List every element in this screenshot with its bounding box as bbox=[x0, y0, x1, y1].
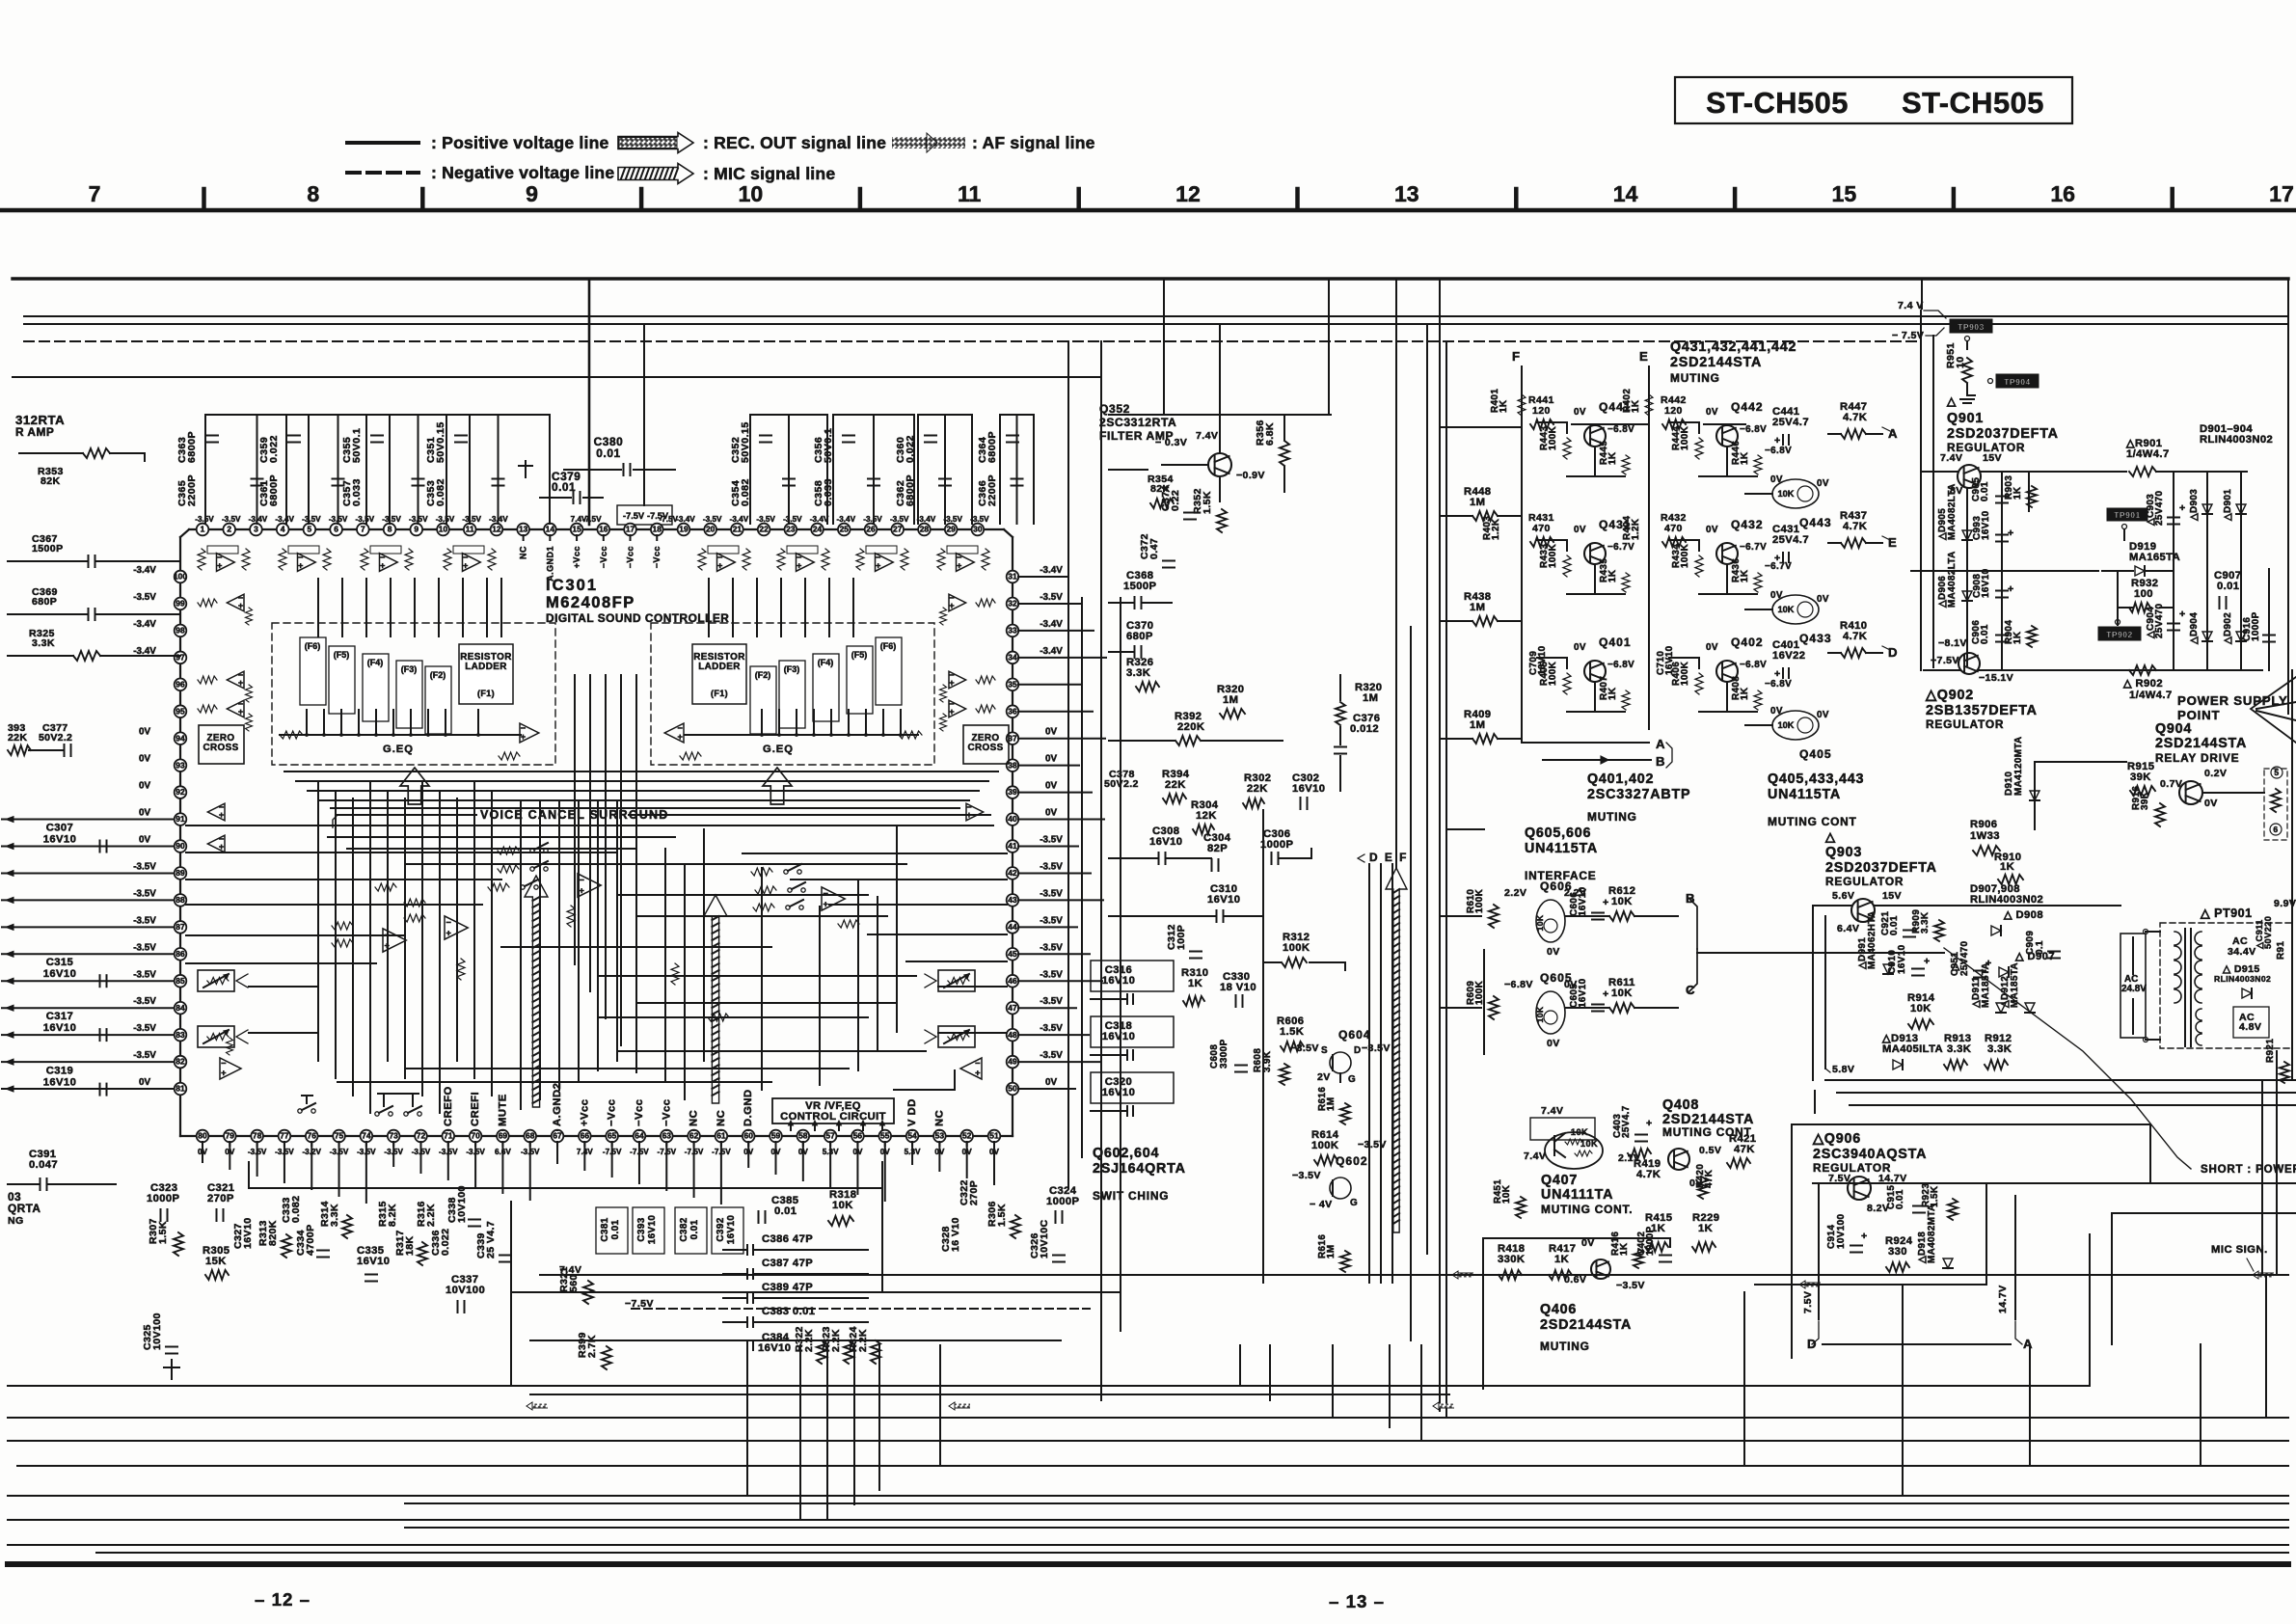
svg-text:0.47: 0.47 bbox=[1148, 538, 1160, 559]
svg-text:+: + bbox=[1603, 988, 1609, 1000]
svg-text:0.033: 0.033 bbox=[351, 478, 363, 506]
svg-text:16V10: 16V10 bbox=[1664, 645, 1675, 675]
svg-text:9: 9 bbox=[414, 525, 419, 534]
svg-text:MA405ILTA: MA405ILTA bbox=[1882, 1043, 1943, 1055]
svg-text:270P: 270P bbox=[207, 1193, 234, 1204]
svg-text:−3.5V: −3.5V bbox=[1292, 1170, 1321, 1181]
svg-text:-3.5V: -3.5V bbox=[133, 1023, 156, 1034]
svg-text:1K: 1K bbox=[1740, 569, 1750, 582]
svg-text:−: − bbox=[221, 1059, 227, 1069]
svg-text:16V10: 16V10 bbox=[1897, 944, 1907, 974]
svg-text:UN4115TA: UN4115TA bbox=[1768, 787, 1841, 802]
svg-text:0.2V: 0.2V bbox=[2204, 768, 2227, 779]
svg-text:47K: 47K bbox=[1734, 1144, 1755, 1155]
svg-text:ST-CH505: ST-CH505 bbox=[1706, 86, 1849, 120]
svg-text:8: 8 bbox=[388, 525, 392, 534]
svg-text:10K: 10K bbox=[1778, 720, 1795, 730]
svg-text:35: 35 bbox=[1008, 679, 1017, 689]
svg-text:UN4115TA: UN4115TA bbox=[1525, 841, 1598, 856]
svg-text:86: 86 bbox=[176, 949, 185, 959]
svg-text:−6.8V: −6.8V bbox=[1765, 679, 1792, 690]
svg-text:94: 94 bbox=[176, 733, 185, 743]
svg-text:−7.5V: −7.5V bbox=[1931, 655, 1959, 666]
svg-text:39K: 39K bbox=[2130, 771, 2151, 783]
svg-text:22K: 22K bbox=[1165, 779, 1186, 791]
svg-text:54: 54 bbox=[907, 1131, 917, 1141]
svg-text:R91: R91 bbox=[2276, 941, 2286, 960]
svg-text:-3.5V: -3.5V bbox=[133, 915, 156, 926]
svg-text:0V: 0V bbox=[1706, 407, 1718, 418]
svg-text:16V10: 16V10 bbox=[1578, 886, 1588, 916]
svg-text:+: + bbox=[2008, 583, 2014, 595]
svg-text:C387 47P: C387 47P bbox=[762, 1258, 813, 1269]
svg-text:△D901: △D901 bbox=[2223, 489, 2233, 522]
svg-text:MA185TA: MA185TA bbox=[1981, 962, 1991, 1008]
svg-text:2200P: 2200P bbox=[186, 474, 198, 506]
svg-text:0V: 0V bbox=[1706, 642, 1718, 653]
svg-text:+: + bbox=[219, 810, 225, 820]
svg-text:0V: 0V bbox=[1770, 590, 1783, 601]
svg-text:4.8V: 4.8V bbox=[2239, 1021, 2261, 1033]
svg-text:2SD2144STA: 2SD2144STA bbox=[1540, 1317, 1632, 1333]
svg-text:74: 74 bbox=[362, 1131, 371, 1141]
svg-text:89: 89 bbox=[176, 868, 185, 878]
svg-text:MA165TA: MA165TA bbox=[2129, 552, 2180, 563]
svg-text:16V10: 16V10 bbox=[43, 834, 76, 846]
svg-text:6800P: 6800P bbox=[186, 431, 198, 463]
svg-text:-3.4V: -3.4V bbox=[1040, 565, 1063, 576]
svg-text:1K: 1K bbox=[2000, 861, 2014, 873]
svg-text:100K: 100K bbox=[1680, 543, 1690, 568]
svg-text:Q602: Q602 bbox=[1336, 1154, 1368, 1168]
svg-text:16V10: 16V10 bbox=[43, 968, 76, 980]
svg-text:56: 56 bbox=[853, 1131, 863, 1141]
svg-text:6800P: 6800P bbox=[905, 474, 916, 506]
svg-text:100K: 100K bbox=[1680, 425, 1690, 450]
svg-text:0V: 0V bbox=[1581, 1237, 1595, 1249]
svg-text:80: 80 bbox=[198, 1131, 207, 1141]
svg-text:50V220: 50V220 bbox=[2263, 916, 2273, 949]
svg-text:C392: C392 bbox=[716, 1217, 726, 1241]
svg-text:17: 17 bbox=[626, 525, 635, 534]
svg-text:100K: 100K bbox=[1283, 942, 1310, 954]
svg-text:TP904: TP904 bbox=[2004, 377, 2031, 387]
svg-text:49: 49 bbox=[1008, 1057, 1017, 1067]
svg-text:16V10: 16V10 bbox=[1207, 894, 1240, 906]
svg-text:5.8V: 5.8V bbox=[1832, 1064, 1854, 1075]
svg-text:0V: 0V bbox=[1770, 706, 1783, 717]
svg-text:76: 76 bbox=[308, 1131, 317, 1141]
svg-text:12: 12 bbox=[1175, 181, 1201, 206]
svg-text:46: 46 bbox=[1008, 976, 1017, 986]
svg-text:12K: 12K bbox=[1196, 810, 1217, 822]
svg-text:10V10C: 10V10C bbox=[1039, 1219, 1050, 1259]
svg-text:0V: 0V bbox=[139, 727, 150, 738]
svg-text:−15.1V: −15.1V bbox=[1979, 672, 2013, 684]
svg-text:16V10: 16V10 bbox=[357, 1256, 390, 1267]
svg-text:21: 21 bbox=[733, 525, 743, 534]
svg-text:99: 99 bbox=[176, 599, 185, 609]
svg-text:10K: 10K bbox=[1778, 605, 1795, 614]
svg-text:1M: 1M bbox=[1470, 602, 1485, 613]
svg-text:25V470: 25V470 bbox=[2154, 603, 2165, 638]
svg-text:(F1): (F1) bbox=[711, 689, 728, 698]
svg-text:+: + bbox=[385, 940, 391, 950]
svg-text:−6.7V: −6.7V bbox=[1740, 542, 1767, 553]
svg-text:0V: 0V bbox=[139, 754, 150, 765]
svg-text:+: + bbox=[446, 928, 452, 937]
svg-text:3.3K: 3.3K bbox=[329, 1204, 340, 1227]
svg-text:0.01: 0.01 bbox=[552, 480, 576, 494]
svg-text:MUTING CONT.: MUTING CONT. bbox=[1541, 1203, 1633, 1216]
svg-text:83: 83 bbox=[176, 1030, 185, 1040]
svg-text:1K: 1K bbox=[1499, 399, 1509, 413]
svg-text:18K: 18K bbox=[404, 1235, 416, 1256]
svg-text:△: △ bbox=[1824, 829, 1836, 844]
svg-text:2.2K: 2.2K bbox=[425, 1204, 437, 1227]
svg-text:: MIC signal line: : MIC signal line bbox=[703, 164, 835, 183]
svg-text:1K: 1K bbox=[1698, 1223, 1713, 1234]
svg-text:-3.5V: -3.5V bbox=[1040, 1050, 1063, 1061]
svg-text:84: 84 bbox=[176, 1003, 185, 1013]
svg-text:120: 120 bbox=[1532, 405, 1551, 417]
svg-text:14: 14 bbox=[1613, 181, 1638, 206]
svg-text:+: + bbox=[949, 678, 955, 688]
svg-text:6.8K: 6.8K bbox=[1264, 422, 1276, 446]
svg-text:1K: 1K bbox=[1607, 687, 1618, 700]
svg-text:44: 44 bbox=[1008, 922, 1017, 932]
svg-text:-3.5V: -3.5V bbox=[1040, 915, 1063, 926]
svg-text:33: 33 bbox=[1008, 626, 1017, 636]
svg-text:2.7K: 2.7K bbox=[586, 1335, 598, 1358]
svg-text:POINT: POINT bbox=[2177, 708, 2220, 722]
svg-text:16V10: 16V10 bbox=[43, 1022, 76, 1034]
svg-text:NC: NC bbox=[519, 546, 528, 559]
svg-text:△ D908: △ D908 bbox=[2003, 909, 2043, 921]
svg-text:15V: 15V bbox=[1983, 452, 2002, 464]
svg-text:0.01: 0.01 bbox=[610, 1219, 621, 1239]
svg-text:1000P: 1000P bbox=[147, 1193, 180, 1204]
svg-text:-3.4V: -3.4V bbox=[917, 515, 936, 524]
svg-text:-3.5V: -3.5V bbox=[1040, 592, 1063, 603]
svg-text:Q904: Q904 bbox=[2155, 721, 2192, 737]
svg-text:16V10: 16V10 bbox=[1981, 510, 1991, 540]
svg-text:5: 5 bbox=[308, 525, 312, 534]
svg-text:: AF signal line: : AF signal line bbox=[972, 133, 1095, 152]
svg-text:18 V10: 18 V10 bbox=[1220, 982, 1256, 993]
svg-text:1K: 1K bbox=[1619, 1242, 1630, 1256]
svg-text:100K: 100K bbox=[1548, 425, 1558, 450]
svg-text:1.2K: 1.2K bbox=[1491, 518, 1501, 540]
svg-text:50V0.15: 50V0.15 bbox=[435, 421, 446, 463]
svg-text:0V: 0V bbox=[1574, 642, 1586, 653]
svg-text:MA4062HTA: MA4062HTA bbox=[1867, 911, 1877, 970]
svg-text:10: 10 bbox=[739, 181, 764, 206]
svg-text:16: 16 bbox=[599, 525, 608, 534]
svg-text:MUTING: MUTING bbox=[1540, 1340, 1590, 1353]
svg-text:91: 91 bbox=[176, 814, 185, 824]
svg-text:MA4082MTA: MA4082MTA bbox=[1927, 1204, 1937, 1263]
svg-text:V DD: V DD bbox=[906, 1098, 918, 1126]
svg-text:25: 25 bbox=[840, 525, 850, 534]
svg-text:G.EQ: G.EQ bbox=[383, 744, 414, 755]
svg-text:18: 18 bbox=[653, 525, 662, 534]
svg-text:+: + bbox=[298, 560, 304, 570]
svg-text:-3.5V: -3.5V bbox=[133, 592, 156, 603]
svg-text:TP901: TP901 bbox=[2114, 510, 2141, 520]
svg-text:C315: C315 bbox=[46, 957, 73, 968]
svg-text:100K: 100K bbox=[1548, 661, 1558, 686]
svg-text:SHORT : POWER: SHORT : POWER bbox=[2201, 1164, 2296, 1176]
svg-text:-3.5V: -3.5V bbox=[1040, 835, 1063, 846]
svg-text:CROSS: CROSS bbox=[967, 743, 1003, 753]
svg-text:10K: 10K bbox=[1910, 1003, 1931, 1015]
svg-text:67: 67 bbox=[553, 1131, 562, 1141]
svg-text:E: E bbox=[1639, 349, 1648, 364]
svg-text:0.012: 0.012 bbox=[1350, 723, 1379, 735]
svg-text:1.5K: 1.5K bbox=[157, 1221, 169, 1244]
svg-text:3.3K: 3.3K bbox=[32, 637, 55, 649]
svg-text:50V0.1: 50V0.1 bbox=[351, 428, 363, 463]
svg-text:+: + bbox=[949, 707, 955, 717]
svg-text:− 7.5V: − 7.5V bbox=[1892, 330, 1924, 341]
svg-text:68: 68 bbox=[526, 1131, 535, 1141]
svg-text:+: + bbox=[221, 1069, 227, 1078]
svg-text:16V10: 16V10 bbox=[1102, 1031, 1135, 1042]
svg-text:−Vcc: −Vcc bbox=[626, 546, 635, 568]
svg-text:5: 5 bbox=[2274, 768, 2279, 777]
svg-text:16V10: 16V10 bbox=[1102, 975, 1135, 987]
svg-text:0.1: 0.1 bbox=[2035, 940, 2045, 955]
svg-text:85: 85 bbox=[176, 976, 185, 986]
svg-text:1M: 1M bbox=[1223, 694, 1238, 706]
svg-text:2SD2144STA: 2SD2144STA bbox=[1670, 355, 1762, 370]
svg-text:-3.4V: -3.4V bbox=[676, 515, 695, 524]
svg-text:47: 47 bbox=[1008, 1003, 1017, 1013]
svg-text:5.6V: 5.6V bbox=[1832, 890, 1854, 902]
svg-text:MA4082LTA: MA4082LTA bbox=[1947, 483, 1958, 540]
svg-text:-7.5V: -7.5V bbox=[582, 515, 602, 524]
svg-text:6800P: 6800P bbox=[268, 474, 280, 506]
svg-text:D: D bbox=[1888, 645, 1898, 660]
svg-text:MA4082LTA: MA4082LTA bbox=[1947, 551, 1958, 608]
svg-text:−6.7V: −6.7V bbox=[1765, 561, 1792, 572]
svg-text:10: 10 bbox=[439, 525, 448, 534]
svg-text:LADDER: LADDER bbox=[465, 662, 507, 672]
svg-text:NC: NC bbox=[689, 1110, 700, 1126]
svg-text:14.7V: 14.7V bbox=[1997, 1285, 2009, 1313]
svg-text:11: 11 bbox=[958, 181, 982, 206]
svg-text:-3.4V: -3.4V bbox=[730, 515, 749, 524]
svg-text:61: 61 bbox=[716, 1131, 726, 1141]
svg-text:0V: 0V bbox=[139, 781, 150, 792]
svg-text:7.5V: 7.5V bbox=[1802, 1291, 1814, 1313]
svg-text:−Vcc: −Vcc bbox=[634, 1098, 645, 1126]
svg-text:4.7K: 4.7K bbox=[1843, 412, 1867, 423]
svg-text:2: 2 bbox=[227, 525, 231, 534]
svg-text:1K: 1K bbox=[1631, 399, 1641, 413]
svg-text:10K: 10K bbox=[1535, 914, 1545, 931]
svg-text:28: 28 bbox=[920, 525, 930, 534]
svg-text:−: − bbox=[975, 1059, 981, 1069]
svg-text:0V: 0V bbox=[1547, 1038, 1560, 1049]
svg-text:-3.4V: -3.4V bbox=[133, 619, 156, 630]
svg-text:1K: 1K bbox=[1554, 1254, 1569, 1265]
svg-text:0.01: 0.01 bbox=[1889, 915, 1900, 935]
svg-text:-3.5V: -3.5V bbox=[133, 969, 156, 980]
svg-text:B: B bbox=[1656, 754, 1665, 769]
svg-text:7: 7 bbox=[89, 181, 101, 206]
svg-text:△Q902: △Q902 bbox=[1925, 688, 1974, 703]
svg-text:2SD2037DEFTA: 2SD2037DEFTA bbox=[1947, 426, 2059, 442]
svg-text:7.4V: 7.4V bbox=[1524, 1150, 1546, 1162]
svg-text:△ R902: △ R902 bbox=[2122, 678, 2163, 690]
svg-text:8: 8 bbox=[307, 181, 319, 206]
svg-text:27: 27 bbox=[893, 525, 903, 534]
svg-text:95: 95 bbox=[176, 706, 185, 716]
svg-text:MUTING CONT: MUTING CONT bbox=[1768, 815, 1857, 828]
svg-text:0.022: 0.022 bbox=[268, 435, 280, 463]
svg-text:55: 55 bbox=[880, 1131, 890, 1141]
svg-text:25V4.7: 25V4.7 bbox=[1621, 1105, 1632, 1138]
svg-text:Q352: Q352 bbox=[1099, 402, 1130, 416]
svg-text:10V100: 10V100 bbox=[151, 1313, 163, 1350]
svg-text:42: 42 bbox=[1008, 868, 1017, 878]
svg-text:82K: 82K bbox=[41, 475, 61, 487]
svg-text:15K: 15K bbox=[205, 1256, 227, 1267]
svg-text:98: 98 bbox=[176, 626, 185, 636]
svg-text:+Vcc: +Vcc bbox=[579, 1098, 590, 1126]
svg-text:16V10: 16V10 bbox=[758, 1342, 791, 1354]
svg-text:C386 47P: C386 47P bbox=[762, 1233, 813, 1245]
svg-text:51: 51 bbox=[989, 1131, 999, 1141]
svg-text:Q405: Q405 bbox=[1799, 747, 1832, 761]
svg-text:4.7K: 4.7K bbox=[1843, 521, 1867, 532]
svg-text:62: 62 bbox=[689, 1131, 699, 1141]
svg-text:Q431,432,441,442: Q431,432,441,442 bbox=[1670, 339, 1796, 355]
svg-text:0V: 0V bbox=[1817, 710, 1829, 720]
svg-text:0.7V: 0.7V bbox=[2160, 778, 2182, 790]
svg-text:2V: 2V bbox=[1317, 1071, 1331, 1083]
svg-text:RLIN4003N02: RLIN4003N02 bbox=[1970, 894, 2043, 906]
svg-text:−0.9V: −0.9V bbox=[1236, 470, 1265, 481]
svg-text:(F6): (F6) bbox=[305, 641, 320, 651]
svg-text:4.7K: 4.7K bbox=[1843, 631, 1867, 642]
svg-text:680P: 680P bbox=[1126, 631, 1153, 642]
svg-text:24.8V: 24.8V bbox=[2121, 984, 2147, 994]
svg-text:CREFI: CREFI bbox=[470, 1092, 481, 1126]
svg-text:7.4V: 7.4V bbox=[1940, 452, 1962, 464]
svg-text:D: D bbox=[1807, 1337, 1817, 1351]
svg-text:10K: 10K bbox=[1611, 988, 1633, 999]
svg-text:7.4V: 7.4V bbox=[1541, 1105, 1563, 1117]
svg-text:0V: 0V bbox=[1547, 946, 1560, 958]
svg-text:A: A bbox=[1656, 737, 1665, 751]
svg-text:-3.4V: -3.4V bbox=[1040, 646, 1063, 657]
svg-text:22K: 22K bbox=[8, 732, 27, 744]
svg-text:-3.5V: -3.5V bbox=[382, 515, 401, 524]
svg-text:270P: 270P bbox=[968, 1180, 980, 1205]
svg-text:48: 48 bbox=[1008, 1030, 1017, 1040]
svg-text:100K: 100K bbox=[1548, 543, 1558, 568]
svg-text:A: A bbox=[2023, 1337, 2033, 1351]
svg-text:-3.4V: -3.4V bbox=[1040, 619, 1063, 630]
svg-text:△ PT901: △ PT901 bbox=[2200, 907, 2253, 920]
svg-text:G: G bbox=[1350, 1198, 1358, 1208]
svg-text:0.082: 0.082 bbox=[290, 1196, 302, 1223]
svg-text:R921: R921 bbox=[2265, 1039, 2276, 1063]
svg-text:13: 13 bbox=[1394, 181, 1419, 206]
svg-text:16V10: 16V10 bbox=[1537, 645, 1548, 675]
svg-text:(F6): (F6) bbox=[880, 641, 896, 651]
svg-text:-3.5V: -3.5V bbox=[133, 996, 156, 1007]
svg-text:Q442: Q442 bbox=[1731, 400, 1764, 414]
svg-text:+: + bbox=[463, 560, 469, 570]
svg-text:2SD2144STA: 2SD2144STA bbox=[2155, 736, 2247, 751]
svg-text:31: 31 bbox=[1008, 572, 1017, 582]
svg-text:0V: 0V bbox=[2204, 798, 2218, 809]
svg-text:△Q906: △Q906 bbox=[1812, 1131, 1861, 1147]
svg-text:13: 13 bbox=[519, 525, 528, 534]
svg-text:Q602,604: Q602,604 bbox=[1093, 1146, 1159, 1161]
svg-text:-3.4V: -3.4V bbox=[837, 515, 856, 524]
svg-text:71: 71 bbox=[444, 1131, 453, 1141]
svg-text:0V: 0V bbox=[1817, 594, 1829, 605]
svg-text:−3.5V: −3.5V bbox=[1358, 1139, 1387, 1150]
svg-text:3.3K: 3.3K bbox=[1947, 1043, 1971, 1055]
svg-text:53: 53 bbox=[935, 1131, 945, 1141]
svg-text:+: + bbox=[1646, 1118, 1653, 1129]
svg-text:△D904: △D904 bbox=[2189, 612, 2200, 645]
svg-text:−: − bbox=[580, 875, 585, 884]
svg-text:−3.5V: −3.5V bbox=[1362, 1042, 1391, 1054]
svg-text:(F3): (F3) bbox=[401, 664, 417, 674]
svg-text:MUTE: MUTE bbox=[497, 1094, 508, 1126]
svg-text:78: 78 bbox=[253, 1131, 262, 1141]
svg-text:-3.5V: -3.5V bbox=[1040, 942, 1063, 953]
svg-text:10K: 10K bbox=[1535, 1006, 1545, 1022]
svg-text:470: 470 bbox=[1664, 523, 1683, 534]
svg-text:− 4V: − 4V bbox=[1310, 1199, 1333, 1210]
svg-text:25 V4.7: 25 V4.7 bbox=[485, 1221, 497, 1259]
svg-text:(F2): (F2) bbox=[755, 670, 770, 680]
svg-text:+: + bbox=[380, 560, 386, 570]
svg-text:-3.5V: -3.5V bbox=[756, 515, 775, 524]
svg-text:16V22: 16V22 bbox=[1772, 650, 1805, 662]
svg-text:-3.5V: -3.5V bbox=[890, 515, 909, 524]
svg-text:+: + bbox=[717, 560, 723, 570]
svg-text:C383 0.01: C383 0.01 bbox=[762, 1306, 815, 1317]
svg-text:C381: C381 bbox=[600, 1217, 610, 1241]
svg-text:0V: 0V bbox=[1770, 474, 1783, 485]
svg-text:1K: 1K bbox=[1740, 687, 1750, 700]
svg-text:100P: 100P bbox=[1175, 925, 1187, 950]
svg-text:− 0.3V: − 0.3V bbox=[1155, 437, 1187, 448]
svg-text:16V10: 16V10 bbox=[1578, 978, 1588, 1008]
svg-text:88: 88 bbox=[176, 895, 185, 905]
svg-text:470: 470 bbox=[1532, 523, 1551, 534]
svg-text:10V100: 10V100 bbox=[446, 1285, 485, 1296]
svg-text:1500P: 1500P bbox=[1123, 581, 1157, 592]
svg-text:0.01: 0.01 bbox=[1895, 1189, 1905, 1209]
svg-text:: REC. OUT signal line: : REC. OUT signal line bbox=[703, 133, 886, 152]
svg-text:+: + bbox=[238, 601, 244, 610]
svg-text:: Negative voltage line: : Negative voltage line bbox=[431, 163, 614, 182]
svg-text:1K: 1K bbox=[1188, 978, 1202, 989]
svg-text:RLIN4003N02: RLIN4003N02 bbox=[2200, 434, 2273, 446]
svg-text:NC: NC bbox=[716, 1110, 727, 1126]
svg-text:−6.8V: −6.8V bbox=[1740, 424, 1767, 435]
